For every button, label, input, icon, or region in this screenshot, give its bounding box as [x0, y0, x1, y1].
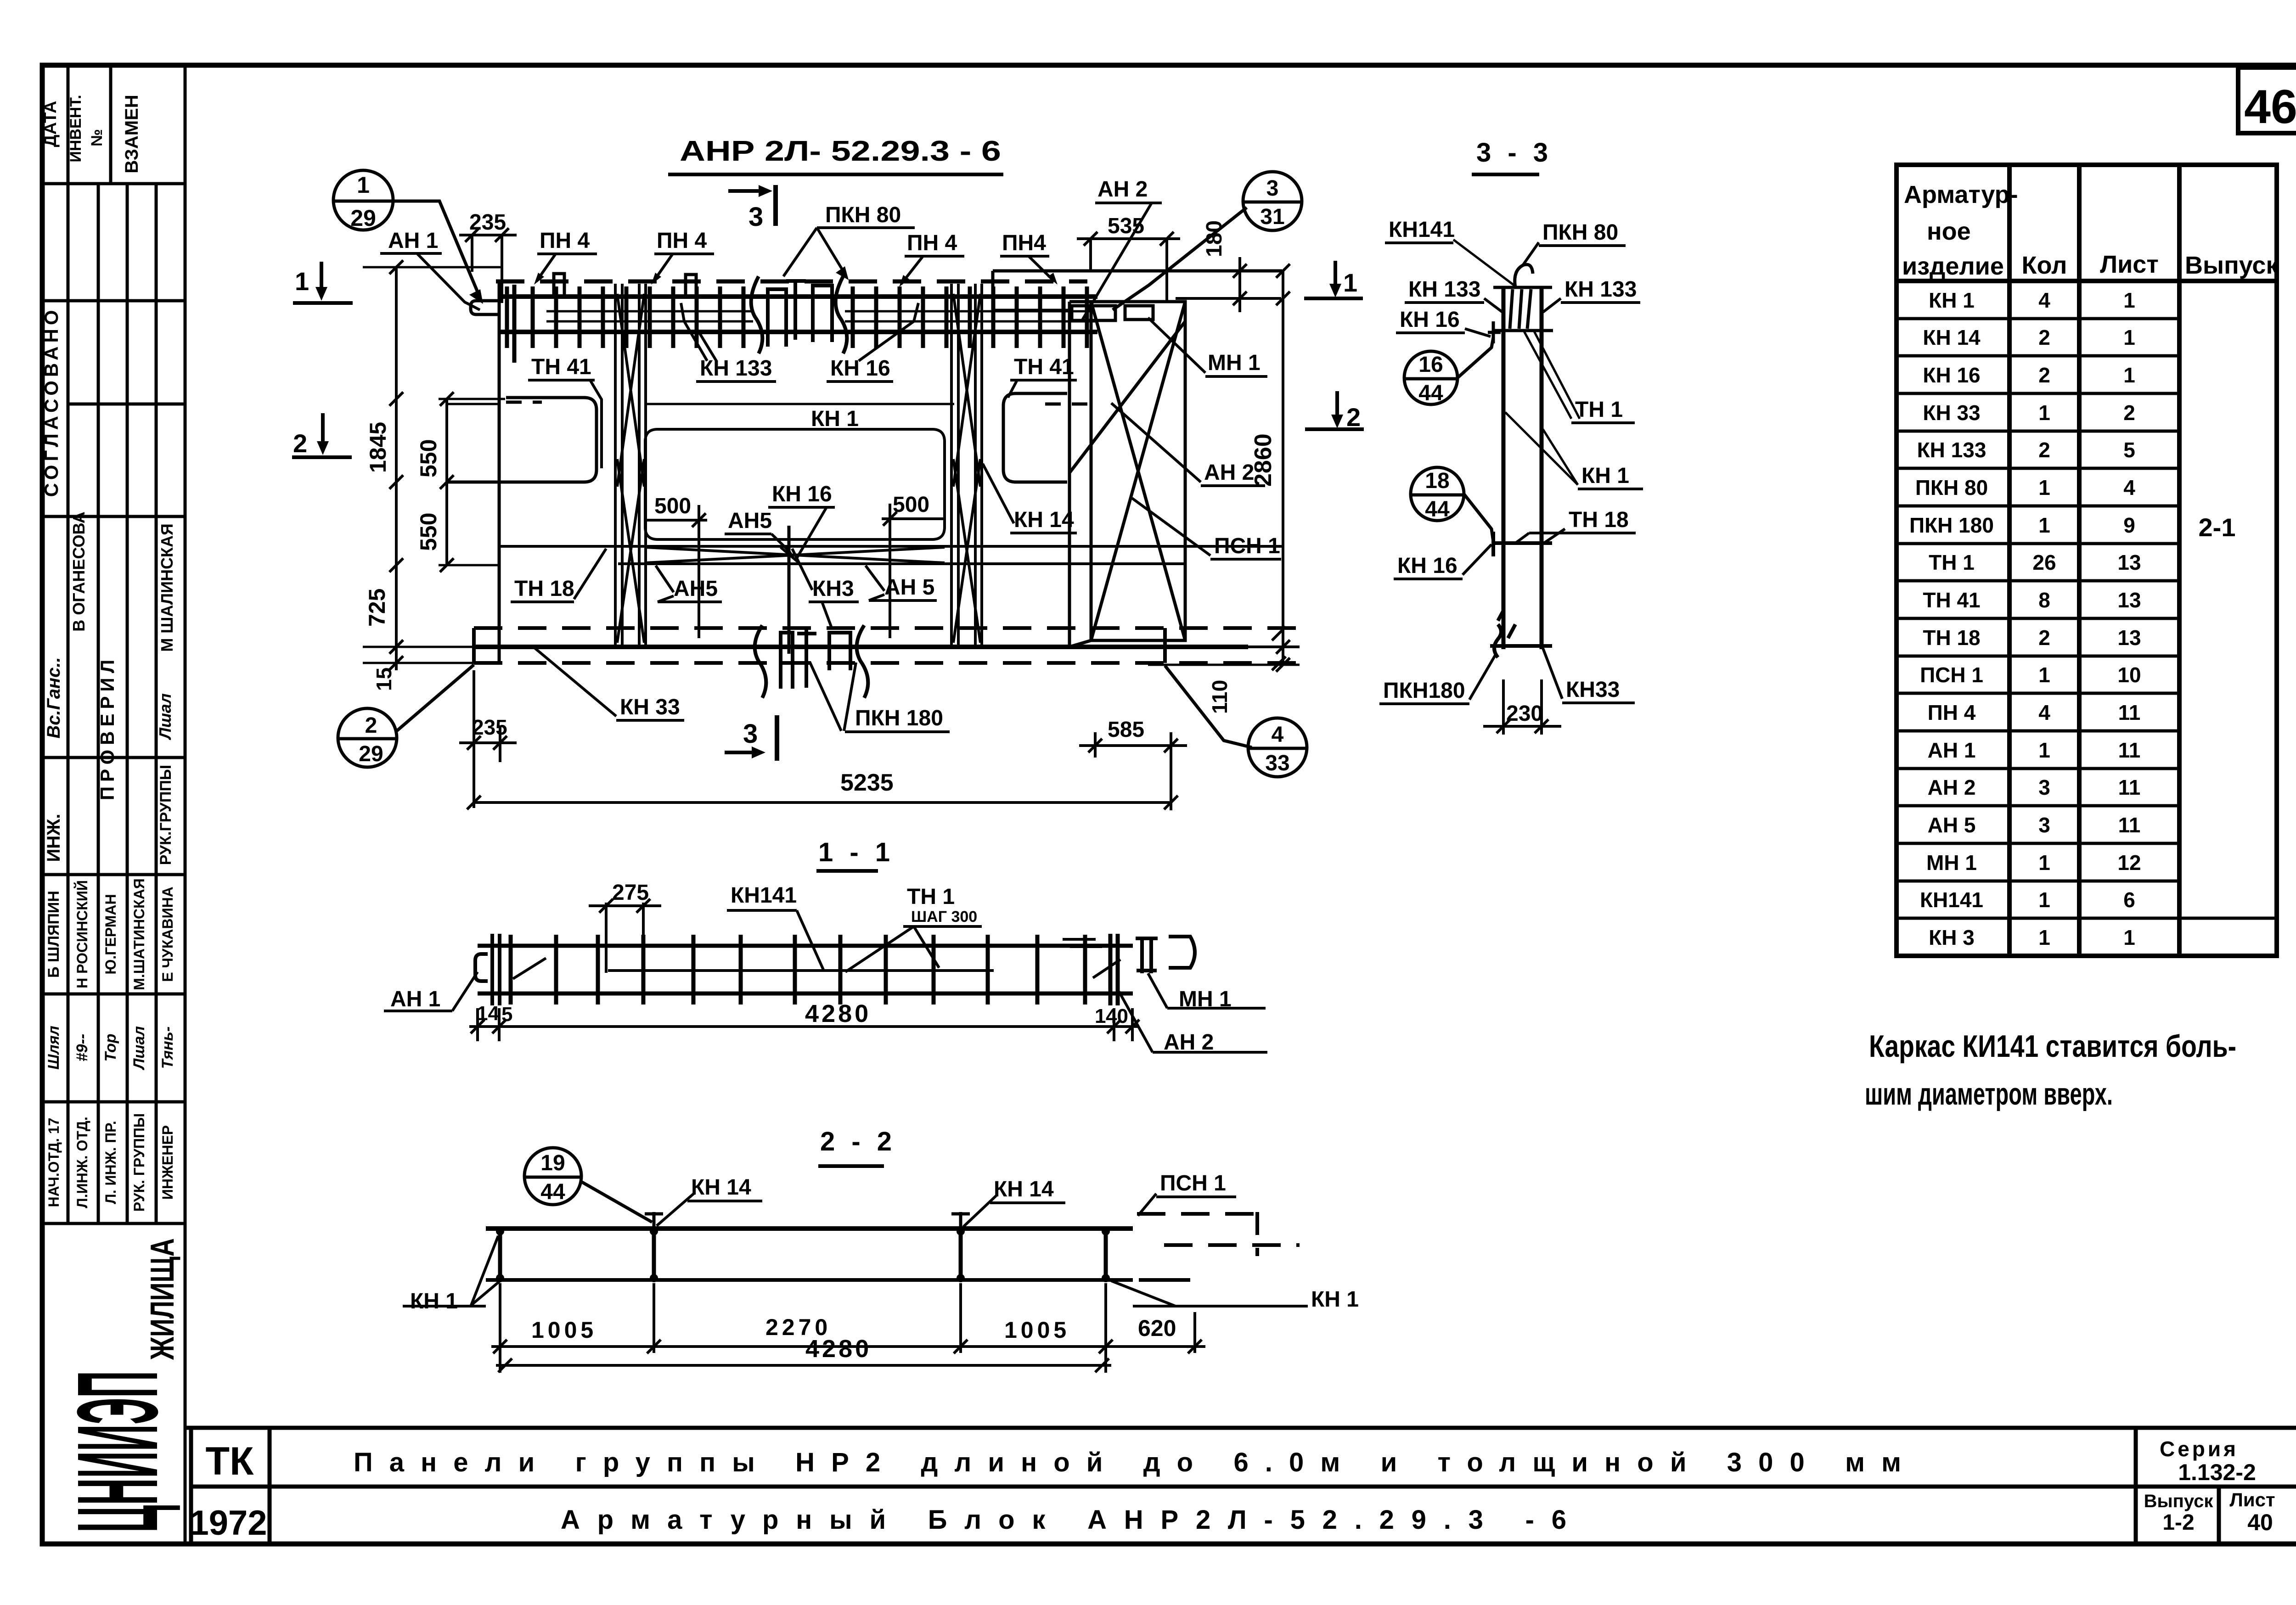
svg-text:АН 1: АН 1	[388, 229, 438, 253]
svg-text:550: 550	[416, 513, 441, 551]
svg-text:1845: 1845	[365, 422, 391, 473]
dimension 2860 (vertical right)	[1148, 264, 1300, 672]
svg-text:КН 133: КН 133	[1564, 277, 1637, 302]
node circle 18/44	[1411, 467, 1493, 542]
ladder rails (1-1)	[478, 946, 1133, 993]
svg-text:ПН 4: ПН 4	[1928, 701, 1976, 724]
svg-text:НАЧ.ОТД. 17: НАЧ.ОТД. 17	[45, 1118, 62, 1207]
node circle 2/29	[338, 665, 474, 767]
label МН1 (plan)	[1148, 318, 1267, 376]
svg-text:110: 110	[1208, 680, 1232, 714]
section cut mark 3 (bottom)	[725, 715, 777, 761]
svg-text:КН 16: КН 16	[1400, 308, 1460, 332]
node circle 4/33	[1165, 666, 1307, 777]
svg-text:КН 1: КН 1	[1581, 464, 1629, 488]
АН1 corner bracket left	[471, 301, 499, 314]
svg-text:АН 1: АН 1	[1928, 738, 1976, 762]
svg-text:ЦНИИЭП: ЦНИИЭП	[53, 1371, 181, 1532]
label ТН18 (section)	[1515, 508, 1636, 543]
label КН133 (left)	[1405, 277, 1503, 312]
svg-text:КН3: КН3	[812, 577, 854, 601]
label ПКН 180	[810, 662, 950, 732]
section cut mark 1 (right)	[1304, 261, 1363, 298]
label ПКН180 (section)	[1379, 654, 1496, 704]
svg-text:5235: 5235	[840, 769, 894, 796]
svg-text:М.ШАТИНСКАЯ: М.ШАТИНСКАЯ	[131, 878, 147, 990]
left end bracket АН1 (1-1)	[475, 934, 546, 1005]
panel left edge	[498, 281, 501, 664]
svg-text:46: 46	[2244, 80, 2296, 134]
dimension 500 (left)	[647, 494, 707, 638]
label КН1 (2-2 left)	[403, 1236, 500, 1313]
svg-text:ТН 1: ТН 1	[1929, 550, 1975, 574]
svg-text:1: 1	[2038, 401, 2050, 425]
svg-text:585: 585	[1108, 718, 1144, 742]
svg-text:МН 1: МН 1	[1208, 351, 1261, 375]
svg-text:2: 2	[2038, 626, 2050, 650]
svg-text:КН 16: КН 16	[772, 482, 832, 506]
right АН2/ПСН1 X zone	[1069, 302, 1185, 647]
svg-text:1972: 1972	[189, 1504, 267, 1543]
svg-text:ПКН 180: ПКН 180	[855, 706, 943, 730]
svg-text:М ШАЛИНСКАЯ: М ШАЛИНСКАЯ	[158, 523, 176, 652]
label КН133 (right)	[1543, 277, 1640, 312]
svg-text:КН141: КН141	[731, 883, 797, 908]
label АН5 (plan mid)	[725, 509, 793, 558]
svg-text:1: 1	[357, 172, 370, 198]
bottom title bar	[185, 1428, 2296, 1544]
svg-text:КН 33: КН 33	[620, 695, 680, 719]
svg-text:ИНЖ.: ИНЖ.	[44, 814, 64, 862]
svg-text:44: 44	[540, 1180, 565, 1204]
svg-text:КН141: КН141	[1389, 218, 1455, 242]
svg-text:6: 6	[2123, 888, 2135, 912]
svg-text:1-2: 1-2	[2162, 1510, 2194, 1535]
svg-text:550: 550	[416, 439, 441, 477]
dimension 145 / 4280 / 140 (1-1)	[469, 1000, 1139, 1041]
svg-text:2: 2	[2038, 325, 2050, 349]
КН3 center bar	[788, 526, 791, 654]
svg-text:Лшал: Лшал	[156, 693, 174, 741]
svg-text:Тянь-: Тянь-	[159, 1027, 176, 1069]
label КН16 (plan mid)	[768, 482, 835, 558]
svg-text:ПСН 1: ПСН 1	[1214, 534, 1280, 558]
svg-text:ТК: ТК	[205, 1439, 254, 1483]
svg-text:40: 40	[2247, 1510, 2273, 1535]
svg-text:КН 3: КН 3	[1929, 926, 1975, 949]
label ПСН 1 (2-2)	[1138, 1171, 1236, 1216]
svg-text:АН 5: АН 5	[1928, 813, 1976, 837]
svg-text:8: 8	[2038, 588, 2050, 612]
label ПН4 #4	[1000, 231, 1058, 285]
dimension 4280 (2-2)	[496, 1335, 1111, 1372]
right end bars (1-1)	[1063, 934, 1120, 1005]
dimension chain 1005/2270/1005/620 (2-2)	[491, 1283, 1205, 1373]
label ТН1	[1524, 331, 1635, 423]
label ПН4 #2	[651, 229, 714, 285]
svg-text:12: 12	[2117, 851, 2141, 875]
svg-text:Выпуск: Выпуск	[2185, 252, 2279, 279]
svg-text:1 - 1: 1 - 1	[818, 837, 895, 867]
svg-text:МН 1: МН 1	[1926, 851, 1977, 875]
svg-text:ТН 18: ТН 18	[514, 577, 574, 601]
bottom chord lines	[499, 546, 1282, 564]
svg-text:10: 10	[2117, 663, 2141, 687]
svg-text:44: 44	[1418, 381, 1443, 405]
svg-text:3: 3	[2038, 813, 2050, 837]
svg-text:2: 2	[2038, 363, 2050, 387]
svg-text:изделие: изделие	[1902, 253, 2004, 280]
svg-text:180: 180	[1202, 220, 1227, 257]
svg-text:ЖИЛИЩА: ЖИЛИЩА	[144, 1238, 181, 1360]
label ПН4 #3	[899, 231, 964, 287]
svg-text:1005: 1005	[1004, 1317, 1070, 1343]
ТН41 slot outline left	[447, 398, 597, 482]
svg-text:№: №	[88, 129, 106, 146]
svg-text:ПКН 180: ПКН 180	[1909, 513, 1994, 537]
label КН33	[535, 648, 684, 720]
note text	[1865, 1029, 2236, 1111]
svg-text:11: 11	[2118, 738, 2141, 762]
svg-text:ПСН 1: ПСН 1	[1920, 663, 1983, 687]
svg-text:Арматурный Блок АНР2Л-52.29.: Арматурный Блок АНР2Л-52.29.3 -6	[561, 1505, 1566, 1535]
svg-text:ПН 4: ПН 4	[540, 229, 590, 253]
section cut mark 1 (left)	[293, 262, 353, 303]
dimension 535	[1077, 214, 1180, 303]
svg-text:500: 500	[654, 494, 691, 518]
svg-text:РУК.ГРУППЫ: РУК.ГРУППЫ	[157, 765, 174, 865]
svg-text:КН141: КН141	[1920, 888, 1983, 912]
svg-text:2: 2	[293, 429, 307, 458]
svg-text:КН 1: КН 1	[811, 407, 859, 431]
svg-text:2: 2	[2038, 438, 2050, 462]
svg-text:19: 19	[540, 1151, 565, 1175]
svg-text:620: 620	[1138, 1315, 1176, 1341]
svg-text:13: 13	[2117, 588, 2141, 612]
svg-text:СОГЛАСОВАНО: СОГЛАСОВАНО	[40, 307, 62, 497]
svg-text:11: 11	[2118, 775, 2141, 799]
label ТН18	[511, 549, 606, 602]
svg-text:1: 1	[295, 267, 309, 296]
svg-text:4280: 4280	[805, 1000, 871, 1027]
svg-text:КН 14: КН 14	[1923, 325, 1981, 349]
svg-text:14: 14	[477, 1002, 499, 1025]
svg-text:КН 16: КН 16	[1397, 554, 1458, 578]
svg-text:16: 16	[1418, 353, 1443, 377]
svg-text:13: 13	[2117, 626, 2141, 650]
ПКН 80 staples over ladder	[751, 276, 847, 354]
svg-text:КН 33: КН 33	[1923, 401, 1980, 425]
svg-text:Тор: Тор	[102, 1033, 119, 1061]
svg-text:5: 5	[2123, 438, 2135, 462]
small pin staple on top rail 2	[686, 275, 696, 297]
node circle 3/31	[1113, 172, 1302, 310]
svg-text:АНР 2Л- 52.29.3 - 6: АНР 2Л- 52.29.3 - 6	[680, 135, 1001, 167]
svg-text:ДАТА: ДАТА	[41, 101, 60, 147]
svg-text:ПКН180: ПКН180	[1383, 679, 1465, 703]
svg-text:1: 1	[2038, 926, 2050, 949]
svg-text:Арматур-: Арматур-	[1904, 181, 2018, 208]
label ПСН1 (plan right)	[1132, 498, 1281, 559]
left dimension chain 1845/550/550/725/15	[363, 260, 505, 691]
label АН2 (top right)	[1081, 177, 1162, 321]
svg-text:Лист: Лист	[2100, 251, 2159, 278]
label ТН41 (left)	[528, 355, 602, 468]
svg-text:3: 3	[2038, 775, 2050, 799]
svg-text:Кол: Кол	[2022, 252, 2067, 279]
node circle 16/44	[1404, 337, 1493, 405]
dimension 500 (right)	[882, 493, 944, 638]
svg-text:КН 133: КН 133	[700, 356, 772, 381]
left X-brace column КН133	[615, 284, 646, 647]
label АН5 (bottom right)	[866, 566, 937, 600]
svg-text:230: 230	[1506, 701, 1543, 726]
svg-text:АН 1: АН 1	[390, 987, 440, 1011]
svg-text:КН 14: КН 14	[691, 1175, 751, 1200]
svg-text:Лист: Лист	[2229, 1489, 2275, 1510]
dimension 5235	[467, 769, 1178, 809]
label ПКН 80 (section)	[1523, 220, 1626, 265]
dimension 110 (vertical small right)	[1208, 627, 1300, 714]
svg-text:29: 29	[359, 742, 383, 766]
node circle 19/44	[524, 1148, 652, 1222]
cross bars ТН1 (1-1)	[511, 935, 1085, 1005]
svg-text:3: 3	[1266, 176, 1279, 201]
svg-text:2 - 2: 2 - 2	[820, 1127, 896, 1156]
bottom tie and ПКН180 staple	[1490, 611, 1552, 657]
svg-text:15: 15	[372, 668, 396, 691]
svg-text:3 - 3: 3 - 3	[1476, 138, 1553, 168]
svg-text:11: 11	[2118, 813, 2141, 837]
ladder cross bars ТН1	[507, 285, 1087, 363]
svg-text:29: 29	[350, 205, 376, 231]
svg-text:1: 1	[2123, 325, 2135, 349]
КН1 inner outline	[645, 429, 945, 539]
dimension 235 (top)	[459, 210, 517, 303]
svg-text:Выпуск: Выпуск	[2144, 1491, 2214, 1511]
label КН14 (2-2 right)	[963, 1177, 1065, 1227]
label КН1 (section)	[1505, 412, 1643, 489]
svg-text:КН 133: КН 133	[1917, 438, 1986, 462]
panel top edge right solid (corner piece МН1 zone)	[993, 269, 1282, 273]
svg-text:2-1: 2-1	[2199, 513, 2236, 542]
svg-text:Шлял: Шлял	[45, 1026, 62, 1070]
svg-text:1: 1	[2038, 476, 2050, 499]
svg-text:9: 9	[2123, 513, 2135, 537]
svg-text:ПКН 80: ПКН 80	[825, 203, 901, 227]
label КН1 (plan)	[811, 407, 859, 431]
parts table	[1896, 165, 2279, 956]
svg-text:26: 26	[2032, 550, 2056, 574]
top reinforcement ladder КН133/КН16 rails	[499, 297, 1097, 332]
label КН16 (lower)	[1394, 544, 1491, 579]
svg-text:1: 1	[2123, 926, 2135, 949]
svg-text:ТН 18: ТН 18	[1569, 508, 1629, 532]
svg-text:1.132-2: 1.132-2	[2178, 1459, 2256, 1485]
svg-text:ПСН 1: ПСН 1	[1160, 1171, 1226, 1195]
svg-text:ШАГ 300: ШАГ 300	[911, 908, 977, 926]
node circle 1/29	[333, 170, 483, 304]
svg-text:АН 5: АН 5	[884, 575, 934, 600]
svg-text:1: 1	[2038, 738, 2050, 762]
section cut mark 2 (left)	[292, 413, 352, 458]
svg-text:ПРОВЕРИЛ: ПРОВЕРИЛ	[96, 655, 118, 800]
КН16 upper tick	[1488, 321, 1501, 343]
section cut mark 3 (top)	[728, 185, 776, 232]
label ПН4 #1	[534, 229, 597, 285]
svg-text:Лшал: Лшал	[130, 1026, 148, 1071]
label КН16 (upper)	[1396, 308, 1491, 337]
svg-text:44: 44	[1425, 497, 1450, 522]
svg-text:#9--: #9--	[73, 1034, 91, 1061]
svg-text:КН 14: КН 14	[1014, 508, 1074, 532]
dimension 585	[1079, 718, 1187, 810]
label АН5 (bottom left)	[656, 566, 722, 602]
svg-text:ное: ное	[1927, 218, 1971, 245]
svg-text:Каркас КИ141 ставится боль-: Каркас КИ141 ставится боль-	[1869, 1029, 2236, 1064]
svg-text:3: 3	[748, 202, 763, 232]
svg-text:2: 2	[365, 713, 377, 738]
svg-text:РУК. ГРУППЫ: РУК. ГРУППЫ	[131, 1113, 147, 1212]
svg-text:1005: 1005	[531, 1317, 597, 1343]
label ТН41 (right)	[1008, 355, 1077, 398]
dimension 180 (vertical small)	[1166, 220, 1281, 312]
left block КН1 (2-2)	[496, 1212, 663, 1282]
svg-text:КН 16: КН 16	[1923, 363, 1980, 387]
svg-text:АН5: АН5	[674, 577, 718, 601]
svg-text:ПН4: ПН4	[1002, 231, 1046, 255]
svg-text:ВЗАМЕН: ВЗАМЕН	[122, 95, 142, 173]
svg-text:1: 1	[1095, 1005, 1106, 1027]
label КН141 (1-1)	[727, 883, 823, 970]
svg-text:4: 4	[2038, 288, 2050, 312]
svg-text:ТН 1: ТН 1	[1575, 398, 1623, 422]
svg-text:КН 133: КН 133	[1408, 277, 1480, 302]
550-level line through panel	[447, 402, 1093, 404]
svg-text:ПКН 80: ПКН 80	[1542, 220, 1618, 245]
svg-text:АН5: АН5	[728, 509, 772, 533]
svg-text:Ю.ГЕРМАН: Ю.ГЕРМАН	[102, 894, 119, 974]
label АН1 (1-1)	[384, 972, 478, 1011]
svg-text:ПН 4: ПН 4	[657, 229, 707, 253]
svg-text:1: 1	[2123, 363, 2135, 387]
svg-text:КН 1: КН 1	[410, 1289, 458, 1313]
svg-text:1: 1	[2038, 663, 2050, 687]
svg-text:275: 275	[612, 881, 649, 905]
label МН1 (1-1)	[1148, 973, 1266, 1011]
svg-text:Л. ИНЖ. ПР.: Л. ИНЖ. ПР.	[102, 1121, 119, 1204]
svg-text:ИНЖЕНЕР: ИНЖЕНЕР	[159, 1125, 176, 1200]
svg-text:ПКН 80: ПКН 80	[1915, 476, 1988, 499]
МН1 hook (1-1)	[1136, 937, 1195, 973]
svg-text:2: 2	[1346, 403, 1361, 432]
label ПКН 80	[783, 203, 915, 280]
top box with КН141 bars and ПКН80 hook	[1492, 264, 1553, 331]
right X-brace column КН133	[951, 284, 982, 647]
label КН141	[1385, 218, 1514, 286]
panel bottom hidden edges (dashed) + heavy bottom line	[474, 628, 1304, 663]
svg-text:ТН 18: ТН 18	[1923, 626, 1980, 650]
label КН3	[792, 549, 859, 629]
svg-text:235: 235	[472, 715, 507, 739]
ПКН 180 staples on bottom band	[755, 625, 868, 698]
МН1 corner notches top right	[993, 271, 1153, 320]
svg-text:АН 2: АН 2	[1928, 775, 1976, 799]
label КН33 (section)	[1543, 648, 1635, 703]
panel hidden top edge (dashed)	[496, 280, 1087, 284]
svg-text:ИНВЕНТ.: ИНВЕНТ.	[67, 95, 84, 162]
svg-text:Е ЧУКАВИНА: Е ЧУКАВИНА	[159, 887, 176, 982]
label ТН1 шаг 300 (1-1)	[845, 885, 982, 972]
svg-text:1: 1	[2038, 513, 2050, 537]
dimension 230	[1483, 679, 1561, 735]
svg-text:1: 1	[1343, 268, 1357, 297]
label КН14 (plan right)	[983, 464, 1077, 533]
svg-text:1: 1	[2038, 888, 2050, 912]
svg-text:В ОГАНЕСОВА: В ОГАНЕСОВА	[69, 511, 88, 631]
label КН133 (plan top)	[681, 303, 776, 382]
right block КН1 (2-2)	[951, 1212, 1110, 1282]
svg-text:2: 2	[2123, 401, 2135, 425]
label КН1 (2-2 right)	[1111, 1281, 1359, 1312]
left title-block sidebar	[42, 65, 185, 1544]
svg-text:Б ШЛЯПИН: Б ШЛЯПИН	[45, 891, 62, 978]
section cut mark 2 (right)	[1305, 391, 1364, 432]
dimension 275 (1-1)	[589, 881, 661, 973]
label АН1	[380, 229, 480, 310]
svg-text:Серия: Серия	[2160, 1437, 2239, 1461]
svg-text:КН 1: КН 1	[1311, 1287, 1359, 1312]
svg-text:АН 2: АН 2	[1204, 460, 1254, 485]
ПСН1 dashed outline (2-2)	[1137, 1212, 1300, 1280]
svg-text:535: 535	[1108, 214, 1144, 238]
svg-text:КН 1: КН 1	[1929, 288, 1975, 312]
bar rails (2-2)	[486, 1229, 1133, 1280]
svg-text:ТН 41: ТН 41	[1014, 355, 1074, 379]
ТН18 tie	[1492, 532, 1552, 556]
svg-text:ТН 41: ТН 41	[1923, 588, 1980, 612]
svg-text:КН 14: КН 14	[994, 1177, 1054, 1201]
svg-text:ТН 41: ТН 41	[531, 355, 591, 379]
svg-text:шим диаметром вверх.: шим диаметром вверх.	[1865, 1077, 2113, 1111]
svg-text:11: 11	[2118, 701, 2141, 724]
svg-text:ПН 4: ПН 4	[907, 231, 957, 255]
column rails	[1503, 287, 1542, 649]
svg-text:1: 1	[2038, 851, 2050, 875]
svg-text:500: 500	[893, 493, 929, 517]
svg-text:4: 4	[2038, 701, 2050, 724]
svg-text:2860: 2860	[1250, 433, 1277, 487]
svg-text:4: 4	[2123, 476, 2135, 499]
label АН2 (1-1)	[1119, 992, 1267, 1055]
svg-text:КН33: КН33	[1566, 678, 1620, 702]
svg-text:18: 18	[1425, 469, 1449, 493]
dimension 235 (bottom)	[459, 670, 517, 808]
svg-text:31: 31	[1260, 205, 1284, 229]
svg-text:Н РОСИНСКИЙ: Н РОСИНСКИЙ	[74, 880, 90, 988]
label КН14 (2-2 left)	[657, 1175, 762, 1226]
plan title АНР 2Л- 52.29.3 - 6	[668, 135, 1003, 174]
ТН41 slot outline right	[1003, 393, 1067, 482]
svg-text:АН 2: АН 2	[1097, 177, 1148, 202]
label КН16 (plan top)	[827, 303, 918, 382]
svg-text:4: 4	[1272, 723, 1284, 747]
label АН2 (right mid)	[1111, 403, 1265, 486]
svg-text:4280: 4280	[805, 1335, 872, 1363]
svg-text:Вс.Ганс..: Вс.Ганс..	[44, 657, 64, 738]
svg-text:ТН 1: ТН 1	[907, 885, 955, 909]
svg-text:1: 1	[2123, 288, 2135, 312]
